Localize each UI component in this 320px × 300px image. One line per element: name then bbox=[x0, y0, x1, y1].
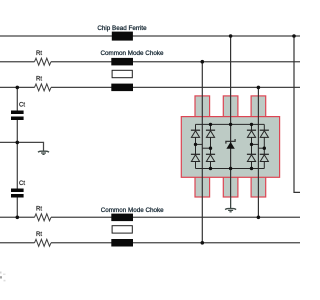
svg-text:Ct: Ct bbox=[19, 102, 25, 109]
svg-text:Common Mode Choke: Common Mode Choke bbox=[101, 50, 164, 57]
svg-text:Rt: Rt bbox=[36, 50, 42, 57]
svg-text:Rt: Rt bbox=[36, 76, 42, 83]
svg-text:Chip Bead Ferrite: Chip Bead Ferrite bbox=[97, 25, 147, 32]
svg-text:Common Mode Choke: Common Mode Choke bbox=[101, 207, 164, 214]
svg-text:Ct: Ct bbox=[19, 180, 25, 187]
svg-text:Rt: Rt bbox=[36, 231, 42, 238]
svg-text:Rt: Rt bbox=[36, 206, 42, 213]
